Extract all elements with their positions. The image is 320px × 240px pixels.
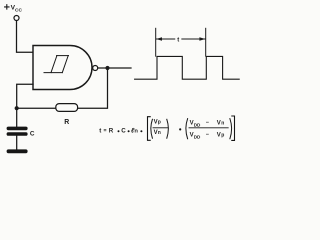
- node A junction dot: [15, 106, 19, 110]
- svg-text:−: −: [206, 132, 210, 138]
- wire output down to feedback: [78, 69, 108, 109]
- output bubble: [93, 66, 98, 71]
- wire VCC to top input: [17, 21, 33, 53]
- dimension line left segment with arrow: [156, 38, 175, 40]
- svg-text:n: n: [134, 128, 138, 134]
- left paren of first fraction: [151, 119, 153, 138]
- svg-text:R: R: [109, 127, 114, 134]
- wire lower input L: [17, 84, 33, 107]
- multiplication dots: [118, 128, 182, 132]
- svg-text:DD: DD: [194, 134, 201, 139]
- resistor R: [56, 104, 78, 112]
- right paren of first fraction: [167, 119, 169, 138]
- wire resistor to node A: [17, 107, 56, 109]
- svg-text:n: n: [221, 120, 224, 126]
- svg-text:−: −: [206, 120, 210, 126]
- svg-text:p: p: [221, 133, 224, 139]
- svg-text:C: C: [30, 131, 35, 138]
- equation t = R.C.ln.[...]: [99, 127, 138, 134]
- ground: [7, 149, 28, 153]
- big right bracket: [232, 116, 235, 140]
- hysteresis symbol: [44, 56, 69, 73]
- svg-text:VCC: VCC: [11, 5, 23, 14]
- dimension extension line right: [205, 28, 207, 56]
- junction output node: [105, 66, 109, 70]
- VCC terminal: [14, 16, 19, 21]
- svg-text:t: t: [99, 127, 101, 134]
- fraction (VDD - Vn) over (VDD - Vp): [190, 120, 225, 139]
- waveform square wave: [135, 56, 240, 79]
- svg-text:t: t: [177, 37, 179, 43]
- dimension line right segment with arrow: [182, 38, 205, 40]
- svg-text:n: n: [158, 130, 161, 136]
- svg-text:=: =: [104, 128, 107, 134]
- svg-text:R: R: [64, 119, 69, 126]
- big left bracket: [148, 117, 151, 141]
- wire capacitor to ground: [16, 136, 18, 150]
- right paren of second fraction: [230, 119, 232, 139]
- dimension extension line left: [155, 28, 157, 56]
- fraction Vp over Vn: [154, 119, 161, 136]
- wire node A to capacitor: [16, 108, 18, 127]
- output wire: [98, 67, 131, 69]
- svg-text:p: p: [158, 120, 161, 126]
- svg-text:C: C: [121, 127, 126, 134]
- power label +VCC: [5, 5, 9, 9]
- Schmitt-trigger NAND gate U1 body: [33, 46, 92, 90]
- svg-text:DD: DD: [194, 123, 201, 128]
- capacitor C plates: [7, 127, 28, 136]
- left paren of second fraction: [186, 119, 188, 139]
